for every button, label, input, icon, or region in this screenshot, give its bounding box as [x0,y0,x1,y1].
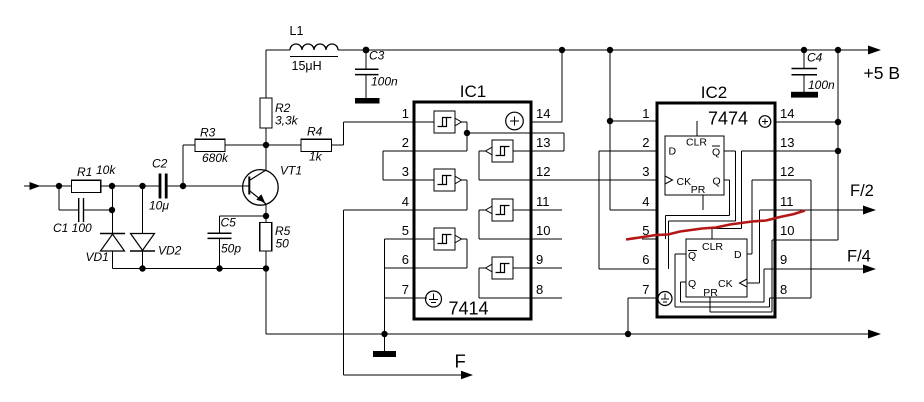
wire rail drop [265,269,267,335]
wire rail arrow [868,46,881,55]
wire bottom rail [266,330,881,339]
svg-text:11: 11 [780,194,794,209]
svg-text:3: 3 [642,164,649,179]
power symbol IC1 [506,112,524,130]
wire pin12-pin8 loop [810,180,812,298]
svg-text:R3: R3 [200,126,216,140]
wire pin4 [344,209,468,211]
pin labels IC2 left [642,106,649,297]
svg-text:CK: CK [677,176,692,188]
wire IC2 pin6 [599,268,669,270]
wire FF1 CLR riser [696,121,698,136]
wire base [183,185,250,187]
svg-text:680k: 680k [202,151,229,165]
svg-text:+5 В: +5 В [864,63,901,83]
node R1 right junction [109,183,115,189]
power symbol IC2 [759,116,771,128]
transistor VT1 [243,145,279,216]
svg-text:50: 50 [276,237,290,251]
pin labels IC1 right [536,106,550,297]
wire FF2 D route pin12 [747,180,811,254]
svg-text:15μH: 15μH [292,59,322,73]
wire VD2 top [142,186,144,233]
wire FF2 CK route pin11 F/2 [747,206,876,284]
svg-text:VT1: VT1 [280,164,302,178]
wire pin10 stub [479,238,562,240]
wire pin5 [385,238,435,240]
diode VD2 [130,234,155,269]
capacitor C1 [59,186,112,222]
svg-text:3: 3 [402,164,409,179]
pin labels IC2 right [780,106,794,297]
node VD2 bottom [139,265,145,271]
svg-text:CK: CK [718,278,733,290]
wire pin1 [344,121,435,123]
svg-text:Q: Q [712,147,720,159]
resistor R1 [71,180,161,192]
wire pin11 stub [513,209,562,211]
gate U1C [434,228,467,268]
gate U1F [479,257,513,298]
node pin13 junction [835,148,841,154]
svg-text:1k: 1k [309,150,323,164]
flip-flop FF2 [686,239,747,297]
node plus riser rail [607,47,613,53]
node pin14 rail [559,47,565,53]
node C4 rail [801,47,807,53]
label FF2 CK [718,278,747,290]
svg-text:9: 9 [536,252,543,267]
svg-text:IC2: IC2 [701,83,727,102]
svg-text:D: D [734,249,742,261]
node C1-VD1 junction [109,207,115,213]
capacitor C5 [208,216,267,269]
svg-text:4: 4 [402,194,409,209]
input arrow [24,182,71,190]
wire pin14 [531,50,562,122]
wire FF2 CLR route pin13 [712,151,838,239]
svg-text:PR: PR [691,184,706,196]
svg-text:14: 14 [536,106,550,121]
annotation red line [626,211,805,240]
wire FF2 PR route pin10 [710,240,838,312]
resistor R3 [183,139,301,151]
svg-text:F: F [455,351,466,372]
wire pin8 stub [479,297,562,299]
wire pin12 to IC2 pin3 [479,179,665,181]
svg-text:2: 2 [642,135,649,150]
wire gnd bus IC1 [384,239,386,334]
svg-text:Q: Q [713,176,721,188]
wire R3 riser [182,145,184,186]
wire top rail [338,49,869,51]
node C2-R3 junction [180,183,186,189]
svg-text:10μ: 10μ [149,199,169,213]
svg-text:4: 4 [642,194,649,209]
flip-flop FF1 [665,136,724,195]
svg-text:CLR: CLR [702,241,723,253]
svg-text:11: 11 [536,194,550,209]
svg-text:3,3k: 3,3k [275,114,299,128]
gate U1E [479,199,513,239]
node IC2 gnd junction [625,331,631,337]
wire gateA to pin13 loop [467,133,564,151]
node plus bus rail [835,47,841,53]
wire pin2-pin3 loop [382,151,384,180]
wire IC2 pin1 [610,120,697,122]
ground C3 [355,98,380,104]
svg-text:7: 7 [402,282,409,297]
wire pin9 stub [513,267,562,269]
capacitor C2 [160,174,183,199]
node pin14 junction [835,119,841,125]
node VD2 top junction [139,183,145,189]
wire pin2-pin6 loop [598,151,600,269]
wire pin6 [385,267,468,269]
svg-text:C2: C2 [152,157,168,171]
svg-text:CLR: CLR [686,137,707,149]
svg-text:7: 7 [642,282,649,297]
label FF2 Qbar [688,250,697,262]
capacitor C3 [355,50,379,98]
svg-text:PR: PR [703,287,718,299]
label FF1 Qbar [712,146,720,159]
wire pin2 [383,133,467,151]
IC1 box [414,102,531,319]
svg-text:F/4: F/4 [847,248,871,266]
wire IC2 pin4 [610,209,703,211]
node R5 bottom [263,265,269,271]
svg-text:5: 5 [402,223,409,238]
svg-text:D: D [669,146,677,158]
wire IC2 pin5 stub [642,238,666,240]
svg-text:100n: 100n [808,78,835,92]
svg-text:10: 10 [536,223,550,238]
svg-text:Q: Q [688,278,696,290]
node IC2 pin1 junction [607,118,613,124]
pin labels IC1 left [402,106,409,297]
wire FF2 Q route pin9 F/4 [681,265,877,303]
svg-text:7474: 7474 [708,109,748,129]
IC2 box [657,103,775,317]
wire F out [344,371,474,379]
svg-text:1: 1 [402,106,409,121]
node C5 bottom [216,265,222,271]
wire FF2 Qbar route pin8 [675,254,811,307]
node C3 top [363,47,370,54]
wire pin7 [385,297,428,299]
svg-text:8: 8 [780,282,787,297]
wire FF1 PR drop [702,195,704,210]
wire FF1 Qbar route [669,151,736,269]
label FF1 CK [665,176,691,188]
resistor R2 [260,50,272,145]
svg-text:2: 2 [402,135,409,150]
svg-text:C5: C5 [221,216,237,230]
wire pin3 [383,179,434,181]
svg-text:R4: R4 [307,125,323,139]
svg-text:10: 10 [780,223,794,238]
svg-text:50p: 50p [221,242,241,256]
wire VD1 top [112,186,114,233]
ground symbol IC1 pin7 [426,291,442,307]
wire IC2 pin14 [775,121,838,123]
svg-text:VD1: VD1 [86,250,109,264]
svg-text:Q: Q [688,250,696,262]
svg-text:12: 12 [780,164,794,179]
ground C4 [791,92,818,98]
svg-text:13: 13 [780,135,794,150]
wire plus bus right [837,50,839,240]
svg-text:R1: R1 [77,165,92,179]
gate U1A [434,111,467,133]
wire IC2 pin2 [599,150,665,152]
resistor R5 [260,216,272,269]
wire F drop [343,210,345,375]
gate U1D [479,140,513,180]
node input junction [56,183,62,189]
svg-text:13: 13 [536,135,550,150]
wire IC2 plus riser [609,50,611,210]
svg-text:C1 100: C1 100 [53,221,92,235]
ground symbol IC2 [658,292,672,306]
node gate A out [464,130,470,136]
svg-text:10k: 10k [96,163,116,177]
ground symbol center [373,334,396,357]
gate U1B [434,169,467,210]
inductor L1 [266,44,338,57]
node emitter junction [263,213,269,219]
wire FF1 Q route [666,180,730,239]
node collector junction [263,142,269,148]
svg-text:1: 1 [642,106,649,121]
svg-text:C4: C4 [807,51,823,65]
svg-text:12: 12 [536,164,550,179]
diode VD1 [100,234,125,269]
svg-text:IC1: IC1 [460,82,486,101]
wire ground bus to rail [381,331,387,337]
svg-text:VD2: VD2 [158,244,182,258]
svg-text:6: 6 [642,252,649,267]
svg-text:100n: 100n [371,75,398,89]
wire IC2 pin7 [628,298,657,334]
resistor R4 [301,122,344,152]
svg-text:F/2: F/2 [850,182,874,200]
svg-text:L1: L1 [290,24,304,38]
svg-text:8: 8 [536,282,543,297]
svg-text:9: 9 [780,252,787,267]
svg-text:C3: C3 [369,49,385,63]
wire bottom rail analog [113,268,267,270]
capacitor C4 [792,50,818,92]
svg-text:7414: 7414 [448,299,488,319]
svg-text:14: 14 [780,106,794,121]
svg-text:6: 6 [402,252,409,267]
